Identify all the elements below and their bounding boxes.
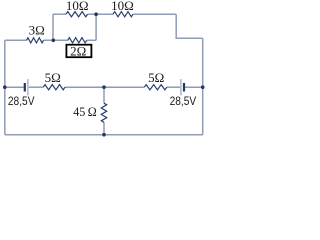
wire: top-right step (176, 14, 203, 38)
svg-text:2Ω: 2Ω (70, 44, 86, 59)
node A (3ohm / parallel split) (52, 39, 56, 43)
wire: main left horizontal leads (5, 39, 27, 41)
resistor 2ohm (68, 38, 87, 43)
node 45ohm top (102, 85, 106, 89)
svg-text:5Ω: 5Ω (148, 70, 164, 85)
resistor 10ohm #2 (113, 12, 133, 17)
svg-text:3Ω: 3Ω (29, 22, 45, 37)
svg-text:28,5V: 28,5V (8, 94, 35, 108)
node left-mid junction (3, 85, 7, 89)
wire: 45 ohm leads (103, 87, 105, 103)
wire: top branch leads (133, 13, 176, 15)
wire: bottom rail (5, 134, 203, 136)
resistor 3ohm (27, 38, 44, 43)
svg-text:10Ω: 10Ω (66, 0, 89, 13)
wire: left rail (4, 40, 6, 134)
node right-mid junction (201, 85, 205, 89)
battery left 28,5V : thick short plate (24, 83, 26, 92)
box around 2ohm label (66, 45, 91, 58)
svg-text:10Ω: 10Ω (111, 0, 134, 13)
svg-text:45 Ω: 45 Ω (73, 104, 97, 119)
resistor 10ohm #1 (66, 12, 88, 17)
battery right : thick short plate (183, 83, 185, 92)
resistor 5ohm left (43, 85, 65, 90)
node B (parallel join / top wire) (94, 12, 98, 16)
resistor 5ohm right (144, 85, 167, 90)
wire: loop left vertical (52, 14, 54, 40)
battery right 28,5V : thin long plate (180, 79, 182, 95)
node 45ohm bottom (102, 133, 106, 137)
svg-text:28,5V: 28,5V (170, 94, 197, 108)
wire: loop right vertical (95, 14, 97, 40)
wire: right rail (202, 38, 204, 134)
wire: middle rail segments (5, 86, 24, 88)
svg-text:5Ω: 5Ω (45, 70, 61, 85)
resistor 45ohm vertical (101, 103, 106, 122)
battery left : thin long plate (27, 79, 29, 95)
